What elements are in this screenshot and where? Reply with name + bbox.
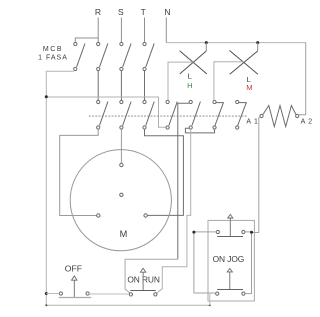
- lamp LM symbol: [257, 43, 259, 51]
- wire OFF to ON RUN: [89, 293, 129, 295]
- wire jog NC right to coil: [245, 232, 252, 294]
- wire bottom rail up to jog NO left: [209, 293, 211, 305]
- contactor K1 aux NO contact 2: [189, 100, 200, 129]
- wire N bus: [166, 42, 305, 44]
- wire phase R to motor: [60, 129, 98, 215]
- svg-text:M: M: [120, 229, 128, 239]
- wire N feed: [165, 18, 167, 43]
- pushbutton ON JOG NO bridge: [217, 289, 243, 291]
- svg-text:A 1: A 1: [246, 118, 258, 125]
- svg-text:A 2: A 2: [301, 118, 313, 125]
- svg-text:M: M: [246, 83, 252, 92]
- wire pole R to contactor: [97, 71, 99, 101]
- coil K1 A1 terminal: [260, 114, 263, 117]
- wire MCB output to left rail: [46, 71, 210, 305]
- svg-text:S: S: [118, 7, 124, 17]
- pushbutton ON JOG enclosure: [208, 220, 254, 301]
- pushbutton ON JOG NO actuator: [227, 269, 232, 272]
- wire R feed: [97, 18, 99, 43]
- wire lamp LM to aux contact 3: [214, 62, 244, 101]
- svg-text:OFF: OFF: [65, 263, 82, 273]
- svg-text:1 FASA: 1 FASA: [38, 55, 68, 62]
- pushbutton ON JOG NC actuator: [228, 214, 233, 218]
- lamp LH symbol: [205, 43, 207, 51]
- wire T feed: [144, 18, 146, 43]
- contactor K1 main pole T: [143, 100, 154, 129]
- wire S feed: [120, 18, 122, 43]
- switch Q pole T: [143, 42, 154, 70]
- svg-text:L: L: [188, 72, 192, 81]
- contactor K1 main pole S: [120, 100, 131, 129]
- node junction rail-OFF: [45, 292, 48, 295]
- svg-text:R: R: [95, 7, 101, 17]
- switch Q pole R: [97, 42, 108, 70]
- pushbutton ON RUN NO bridge: [130, 290, 155, 292]
- node corner dot bottom-left: [45, 304, 47, 306]
- node junction rail-bus: [45, 95, 48, 98]
- contactor K1 aux NO contact 1: [166, 100, 177, 129]
- coil K1 A2 terminal: [296, 114, 299, 117]
- svg-text:N: N: [164, 7, 170, 17]
- pushbutton ON RUN actuator: [140, 268, 145, 272]
- wire phase T to motor: [145, 129, 184, 215]
- wire aux2 bottom to aux3 bottom: [185, 128, 214, 133]
- motor terminal right: [144, 214, 147, 217]
- svg-text:T: T: [141, 7, 146, 17]
- wire aux2 top to hold circuit: [178, 103, 189, 259]
- svg-text:ON JOG: ON JOG: [213, 254, 245, 264]
- breaker MCB pole: [74, 42, 85, 70]
- motor M body: [70, 150, 171, 251]
- pushbutton ON RUN contacts: [129, 293, 132, 296]
- wire lamp LH to aux contact 1: [168, 62, 193, 100]
- motor terminal left: [97, 214, 100, 217]
- pushbutton ON JOG NO contacts: [216, 292, 219, 295]
- wire jog NC left to run button net: [194, 232, 216, 293]
- node lamp M tap dot: [256, 41, 259, 44]
- wire A2 to N bus: [299, 43, 306, 115]
- pushbutton OFF NC bridge: [59, 297, 91, 299]
- pushbutton ON JOG NC bridge: [217, 236, 243, 238]
- motor terminal center: [120, 193, 123, 196]
- svg-text:MCB: MCB: [43, 46, 63, 53]
- pushbutton OFF actuator: [72, 276, 78, 280]
- contactor K1 mechanical linkage dashed: [89, 115, 248, 117]
- node corner dot bottom-right: [209, 304, 211, 306]
- pushbutton OFF contacts: [59, 292, 62, 295]
- wire rail to OFF: [46, 293, 59, 295]
- switch Q pole S: [120, 42, 131, 70]
- motor terminal top: [120, 163, 123, 166]
- contactor K1 aux NC contact 4: [236, 100, 247, 129]
- wire control bus from MCB: [46, 97, 166, 127]
- wire A1 to jog contact: [252, 117, 261, 233]
- wire MCB tap from R: [75, 38, 98, 42]
- wire aux2 bottom to ON RUN right: [157, 129, 191, 293]
- contactor K1 main pole R: [97, 100, 108, 129]
- svg-text:ON RUN: ON RUN: [127, 274, 159, 284]
- node lamp H tap dot: [205, 41, 208, 44]
- pushbutton ON RUN enclosure: [125, 259, 178, 293]
- wire phase S to motor: [120, 129, 122, 163]
- wire pole T to contactor: [144, 71, 146, 101]
- pushbutton ON JOG NC contacts: [216, 230, 219, 233]
- wire pole S to contactor: [120, 71, 122, 101]
- node junction TL dot: [192, 231, 195, 234]
- coil K1 winding zigzag: [263, 106, 296, 127]
- node junction TR dot: [250, 231, 253, 234]
- svg-text:H: H: [187, 81, 192, 90]
- contactor K1 aux NC contact 3: [213, 100, 224, 129]
